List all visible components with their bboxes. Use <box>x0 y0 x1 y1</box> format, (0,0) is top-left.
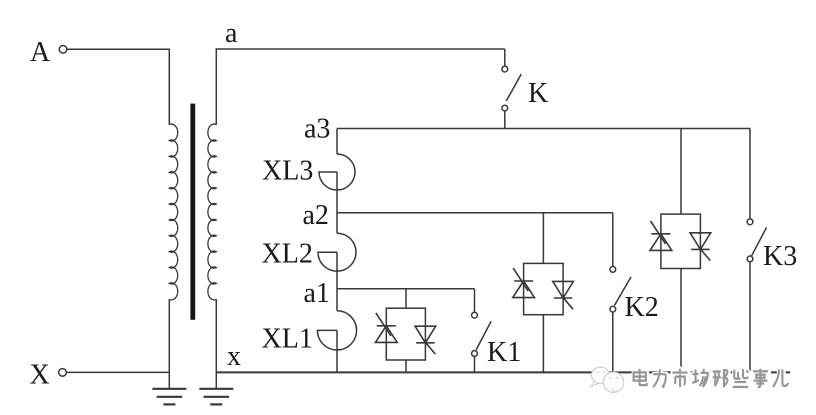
switch K2 <box>610 213 631 373</box>
thyristor T2b (right, pointing down) <box>553 281 574 309</box>
svg-text:A: A <box>30 37 51 68</box>
reactor XL2 <box>318 213 356 289</box>
primary winding <box>169 124 177 300</box>
svg-text:a: a <box>225 18 238 49</box>
switch K1 <box>472 289 492 373</box>
svg-text:K2: K2 <box>625 292 659 323</box>
terminal X <box>59 369 67 377</box>
watermark text 电力市场那些事儿 (stroke approximation) <box>634 369 789 388</box>
svg-text:X: X <box>30 360 50 391</box>
terminal A <box>59 46 67 54</box>
wire secondary top to node a and switch K <box>216 49 505 125</box>
wire A to primary top <box>67 49 170 124</box>
svg-text:a1: a1 <box>304 278 330 309</box>
svg-text:XL2: XL2 <box>262 238 313 269</box>
wire primary bottom to ground <box>168 299 170 388</box>
switch K <box>502 49 521 129</box>
svg-text:a2: a2 <box>303 200 329 231</box>
bottom bus wire (x) <box>216 371 790 373</box>
switch K3 <box>747 129 766 373</box>
thyristor T2a (left, pointing up) <box>513 268 535 298</box>
svg-text:XL3: XL3 <box>262 156 313 187</box>
svg-text:x: x <box>227 341 241 372</box>
bus a2 <box>337 212 613 214</box>
thyristor T3b (right, pointing down) <box>690 233 711 261</box>
secondary winding <box>208 124 216 300</box>
reactor XL3 <box>319 129 355 213</box>
thyristor valve 1 (tap + box) <box>386 289 425 373</box>
thyristor valve 3 (tap + box) <box>661 129 701 373</box>
svg-text:a3: a3 <box>304 114 330 145</box>
thyristor valve 2 (tap + box) <box>524 213 564 373</box>
thyristor T3a (left, pointing up) <box>650 221 672 251</box>
svg-text:K3: K3 <box>763 241 797 272</box>
ground (secondary) <box>199 389 233 405</box>
reactor XL1 <box>317 289 356 373</box>
ground (primary) <box>152 389 186 405</box>
svg-text:K1: K1 <box>487 337 521 368</box>
bus a3 <box>337 128 750 130</box>
watermark logo (two chat bubbles) <box>591 367 624 392</box>
transformer core <box>190 104 195 320</box>
svg-text:XL1: XL1 <box>262 324 313 355</box>
bus a1 <box>337 288 475 290</box>
wire X to primary bottom <box>66 371 169 373</box>
svg-text:K: K <box>528 78 548 109</box>
thyristor T1a (left, pointing up) <box>375 313 397 343</box>
wire secondary bottom to ground <box>215 299 217 388</box>
thyristor T1b (right, pointing down) <box>415 326 436 354</box>
